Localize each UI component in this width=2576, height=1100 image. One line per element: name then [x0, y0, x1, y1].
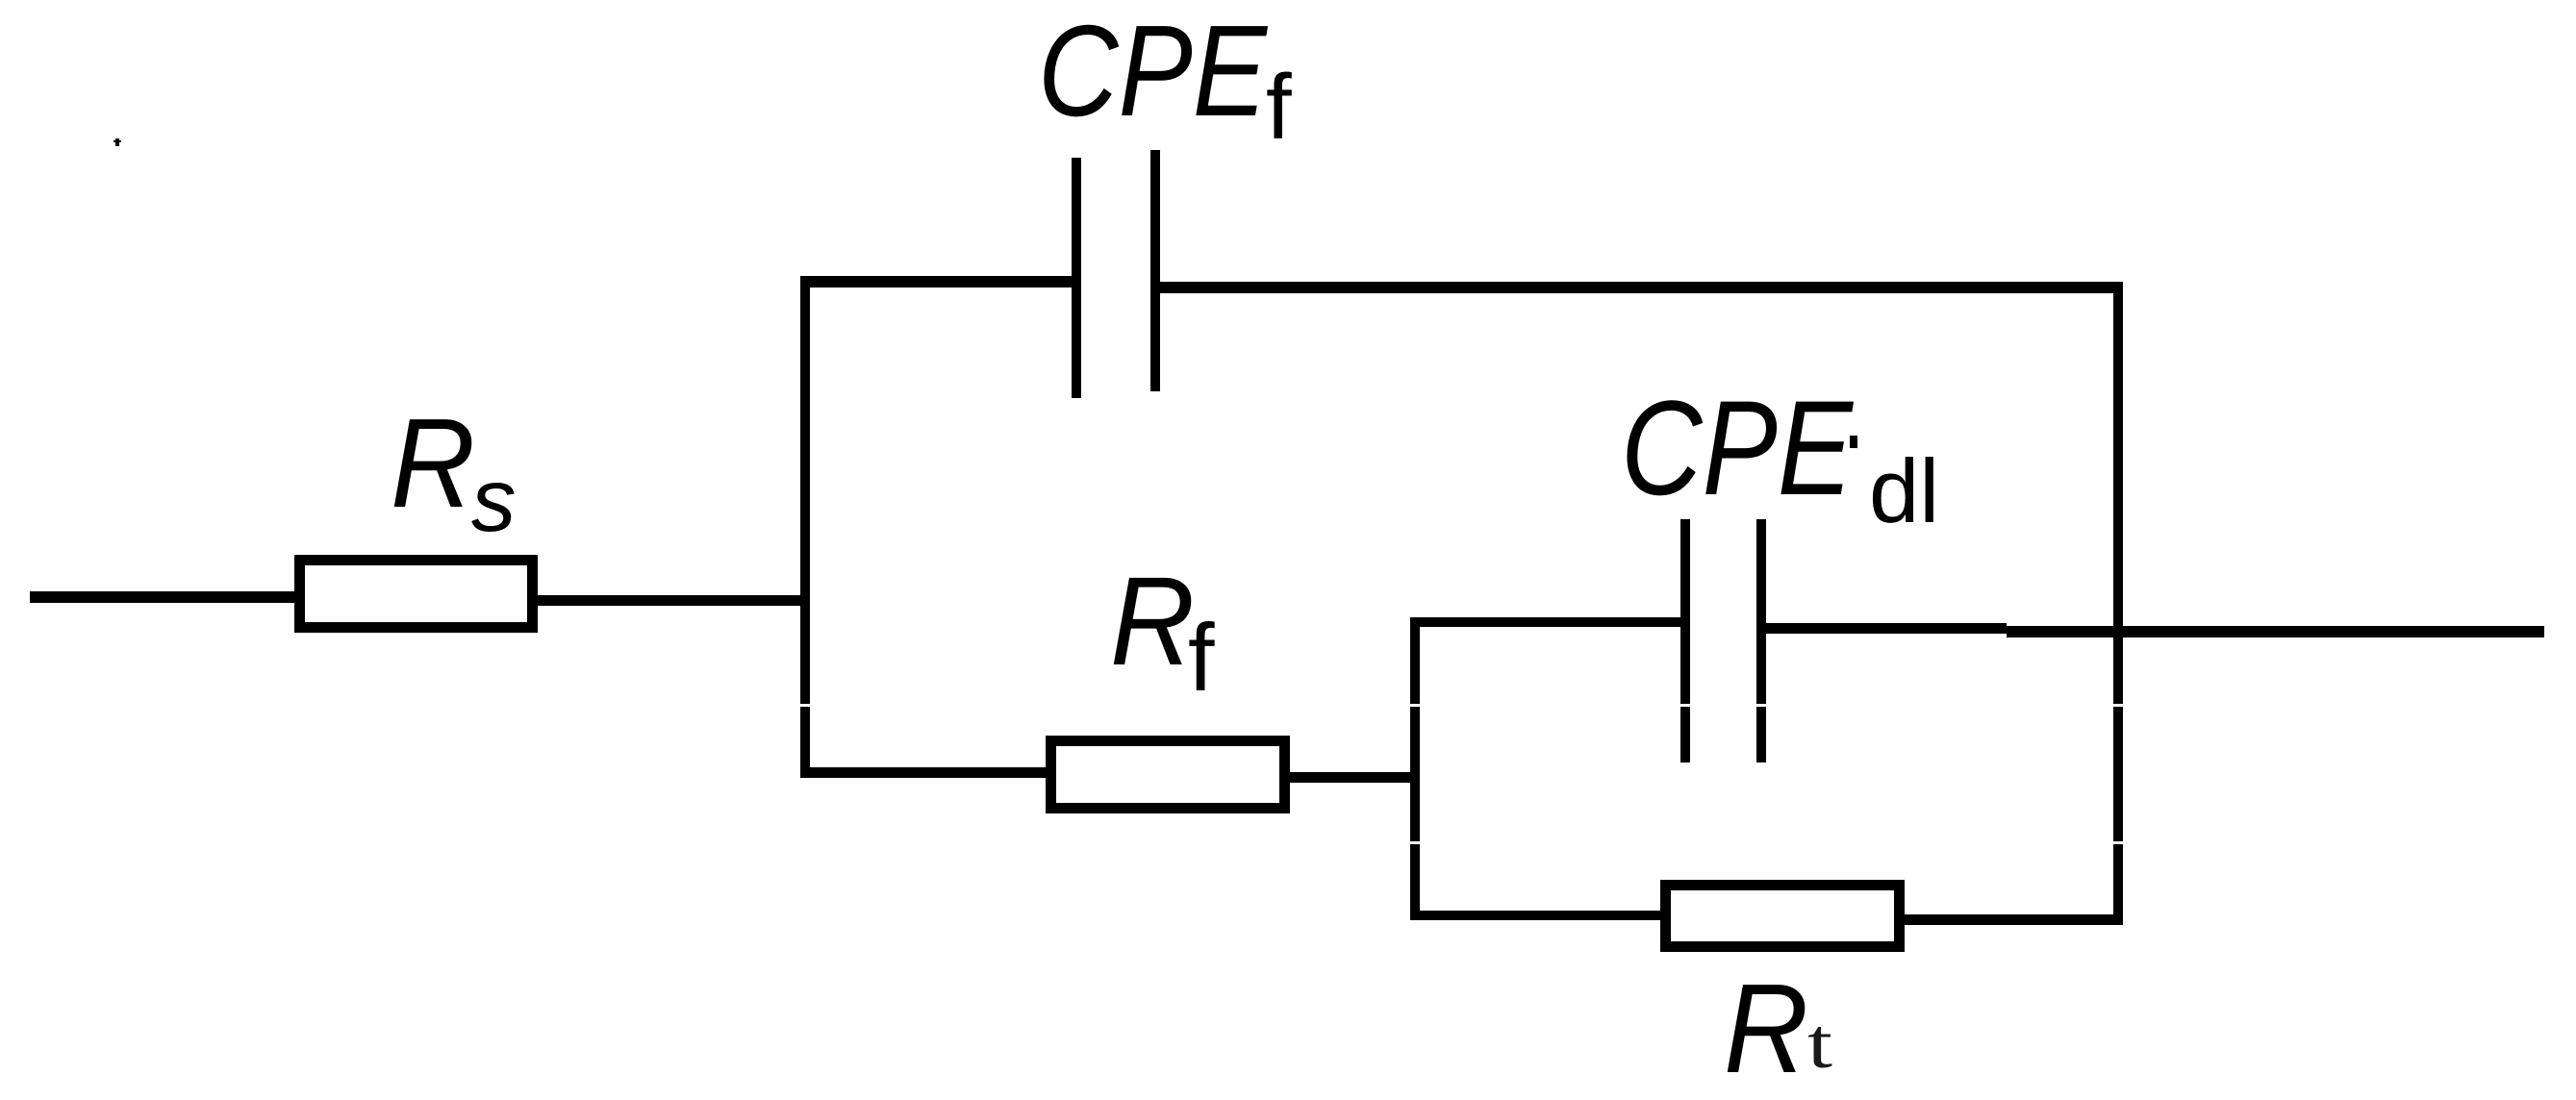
resistor Rf — [1051, 741, 1285, 809]
label CPEdl — [1621, 372, 1939, 541]
svg-text:R: R — [391, 392, 475, 534]
wire: inner bottom branch right of Rt — [1905, 914, 2123, 925]
wire: output lead (left of junction) — [1766, 623, 2007, 634]
wire: inner-left vertical segment 2 — [1410, 707, 1420, 841]
resistor Rt — [1666, 886, 1900, 947]
wire: outer-left vertical (upper) — [800, 276, 810, 704]
svg-text:f: f — [1188, 604, 1215, 711]
label Rf — [1110, 550, 1215, 711]
wire: bottom branch left of Rf — [800, 767, 1046, 778]
label Rs — [391, 392, 517, 550]
wire: inner top branch to CPEdl — [1410, 617, 1680, 627]
svg-text:s: s — [471, 450, 517, 550]
svg-text:f: f — [1266, 56, 1292, 159]
capacitor CPEdl right plate (lower) — [1756, 707, 1766, 762]
capacitor CPEdl left plate (lower) — [1680, 707, 1690, 762]
svg-text:CPE: CPE — [1038, 0, 1269, 143]
wire: inner-left vertical segment 1 — [1410, 617, 1420, 704]
wire: outer-left vertical (lower) — [800, 707, 810, 778]
capacitor CPEdl right plate (upper) — [1756, 519, 1766, 704]
resistor Rs — [300, 561, 533, 628]
wire: right vertical segment 2 — [2113, 707, 2123, 841]
capacitor CPEf left plate — [1072, 158, 1081, 398]
wire: output lead — [2007, 626, 2544, 637]
wire: top branch left of CPEf — [800, 276, 1072, 287]
wire: Rs to left node — [538, 595, 810, 606]
wire: top branch right of CPEf — [1160, 282, 2123, 293]
wire: left input lead — [30, 591, 295, 603]
wire: bottom branch right of Rf — [1290, 772, 1415, 783]
svg-text:CPE: CPE — [1621, 372, 1854, 523]
svg-text:R: R — [1110, 550, 1195, 691]
capacitor CPEdl left plate (upper) — [1680, 519, 1690, 704]
wire: right vertical segment 1 — [2113, 282, 2123, 704]
svg-text:R: R — [1724, 958, 1808, 1099]
stray dagger mark — [114, 138, 121, 146]
svg-text:dl: dl — [1869, 440, 1939, 541]
label Rt — [1724, 958, 1833, 1099]
wire: right vertical segment 3 — [2113, 844, 2123, 923]
capacitor CPEf right plate — [1150, 150, 1160, 391]
wire: inner bottom branch left of Rt — [1410, 911, 1660, 920]
label CPEf — [1038, 0, 1292, 159]
wire: inner-left vertical segment 3 — [1410, 844, 1420, 920]
svg-text:t: t — [1807, 1005, 1833, 1084]
